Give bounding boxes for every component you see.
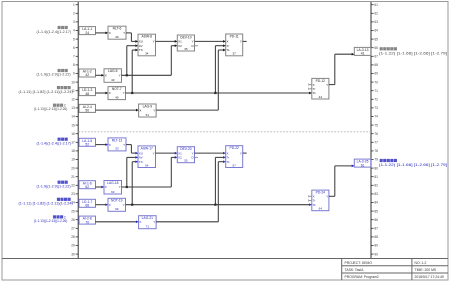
net label safety-value row 4 <box>37 26 72 34</box>
svg-text:15: 15 <box>71 123 75 127</box>
wire LAG-21.Y to PD-22.Ts <box>156 160 226 221</box>
svg-text:(1-1.22) [1-1.66] [1-2.66]: (1-1.22) [1-1.66] [1-2.66] [1-2.79] <box>379 51 447 55</box>
svg-text:Y: Y <box>153 220 155 224</box>
svg-text:X: X <box>139 220 141 224</box>
function block LA-1-1 (I/O block, value 24) <box>79 27 96 35</box>
svg-text:PD-12: PD-12 <box>316 79 326 83</box>
svg-text:DEV-20: DEV-20 <box>180 147 192 151</box>
svg-text:69: 69 <box>115 207 119 211</box>
wire ASW-17.Y to DEV-20.X1 <box>156 152 178 155</box>
svg-text:29: 29 <box>71 244 75 248</box>
svg-text:PROJECT: DEMO: PROJECT: DEMO <box>345 261 373 265</box>
wire LA-1-5 out to RLT-13.X <box>96 143 109 146</box>
pin stub PD-12.X (unconnected) <box>309 83 312 85</box>
junction on NOT-19 output at TS branch <box>131 204 133 206</box>
svg-text:Y: Y <box>123 91 125 95</box>
svg-text:8: 8 <box>73 63 75 67</box>
svg-text:26: 26 <box>115 35 119 39</box>
wire stub PD-22.Y (unconnected) <box>243 152 247 154</box>
svg-text:X: X <box>139 108 141 112</box>
svg-text:(1-1.22) [1-1.66] [1-2.66]: (1-1.22) [1-1.66] [1-2.66] [1-2.79] <box>379 163 447 167</box>
function block DEV-20 (value 55) <box>177 147 194 163</box>
svg-text:54: 54 <box>145 163 149 167</box>
svg-text:Y: Y <box>123 143 125 147</box>
svg-text:70: 70 <box>374 80 378 84</box>
function block DEV-10 (value 35) <box>177 35 194 51</box>
svg-text:25: 25 <box>71 209 75 213</box>
pin stub PD-24.Tr (unconnected) <box>309 199 312 201</box>
svg-text:76: 76 <box>374 132 378 136</box>
svg-text:61: 61 <box>374 3 378 7</box>
svg-text:37: 37 <box>233 52 237 56</box>
svg-text:NO: 1-2: NO: 1-2 <box>415 261 427 265</box>
svg-text:63: 63 <box>374 20 378 24</box>
svg-text:2: 2 <box>73 12 75 16</box>
net label safety-value row 17 <box>37 138 72 146</box>
sheet section separator (dashed) <box>78 131 371 133</box>
svg-text:(1-1.11) [1-1.82] (1-2.11)(1-2: (1-1.11) [1-1.82] (1-2.11)(1-2.24) <box>19 90 73 94</box>
svg-text:NOT-19: NOT-19 <box>111 199 123 203</box>
wire AI-1-6 out to LAG-18.X <box>96 186 105 189</box>
svg-text:82: 82 <box>374 184 378 188</box>
svg-text:Y: Y <box>153 151 155 155</box>
wire RLT-6.Y to ASW-8.XU <box>126 33 138 43</box>
wire LAG-9.Y to PD-11.Ts <box>156 49 226 110</box>
svg-text:88: 88 <box>374 235 378 239</box>
net label auto-setpoint row 66 <box>379 47 447 55</box>
svg-text:26: 26 <box>71 218 75 222</box>
title block <box>342 259 448 281</box>
svg-text:RLT-6: RLT-6 <box>113 27 122 31</box>
svg-text:77: 77 <box>374 141 378 145</box>
svg-text:Y: Y <box>326 195 328 199</box>
svg-text:4: 4 <box>73 29 75 33</box>
function block RLT-6 (value 26) <box>108 26 126 39</box>
wire stub PD-11.Y (unconnected) <box>243 40 247 42</box>
svg-text:(1-1.11) [1-1.82] (1-2.11)(1-2: (1-1.11) [1-1.82] (1-2.11)(1-2.24) <box>19 201 73 205</box>
svg-text:86: 86 <box>374 218 378 222</box>
svg-text:7: 7 <box>73 55 75 59</box>
net label feedback-value row 22 <box>37 181 71 189</box>
svg-text:55: 55 <box>184 159 188 163</box>
svg-text:X: X <box>109 143 111 147</box>
svg-text:63: 63 <box>111 190 115 194</box>
svg-text:TS: TS <box>139 160 143 164</box>
svg-text:62: 62 <box>85 185 89 189</box>
svg-text:41: 41 <box>361 52 365 56</box>
function block NOT-7 (value 49) <box>108 87 126 100</box>
svg-text:NOT-7: NOT-7 <box>112 87 122 91</box>
wire NOT-7.Y to PD-12.Ts <box>126 92 312 95</box>
wire LAG-5.Y to DEV-10.X2 <box>122 44 178 75</box>
svg-text:Y: Y <box>119 185 121 189</box>
svg-text:LAG-18: LAG-18 <box>107 181 119 185</box>
function block RLT-13 (value 53) <box>108 138 126 151</box>
svg-text:35: 35 <box>184 47 188 51</box>
svg-text:78: 78 <box>374 149 378 153</box>
function block PD-24 (value 64) <box>312 190 329 211</box>
svg-text:87: 87 <box>374 227 378 231</box>
left bus rail with row numbers 1-30 <box>71 2 78 259</box>
svg-text:57: 57 <box>233 163 237 167</box>
svg-text:ASW-8: ASW-8 <box>142 35 153 39</box>
svg-text:17: 17 <box>71 141 75 145</box>
wire DEV-20.Y to PD-22.X <box>195 152 226 155</box>
svg-text:71: 71 <box>146 225 150 229</box>
svg-text:TIME: 200 MS: TIME: 200 MS <box>415 268 437 272</box>
junction on LAG-5 output <box>126 74 128 76</box>
function block NOT-19 (value 69) <box>108 198 126 211</box>
function block PD-11 (value 37) <box>226 34 243 56</box>
svg-text:43: 43 <box>111 78 115 82</box>
svg-text:22: 22 <box>71 184 75 188</box>
svg-text:74: 74 <box>374 115 378 119</box>
svg-text:13: 13 <box>71 106 75 110</box>
svg-text:5: 5 <box>73 37 75 41</box>
svg-text:DEV-10: DEV-10 <box>180 35 192 39</box>
svg-text:ASW-17: ASW-17 <box>141 146 153 150</box>
function block LD-1-7 (I/O block, value 68) <box>79 199 96 207</box>
svg-text:72: 72 <box>374 98 378 102</box>
wire PD-24.Y to LA-3-25 in <box>329 165 354 197</box>
svg-text:(1-1.13)(1-2.13)(1-2.26): (1-1.13)(1-2.13)(1-2.26) <box>34 219 68 223</box>
function block LD-1-3 (I/O block, value 48) <box>79 88 96 96</box>
svg-text:51: 51 <box>146 113 150 117</box>
svg-text:Ts: Ts <box>313 91 317 95</box>
net label feedback-value-2 row 13 <box>34 104 68 111</box>
svg-text:90: 90 <box>374 252 378 256</box>
svg-text:2018/5/17 17:24:49: 2018/5/17 17:24:49 <box>415 275 444 279</box>
function block LAG-9 (value 51) <box>139 104 157 117</box>
svg-text:20: 20 <box>71 166 75 170</box>
svg-text:PD-24: PD-24 <box>316 191 326 195</box>
svg-text:LAG-21: LAG-21 <box>142 216 154 220</box>
function block LAG-21 (value 71) <box>139 216 157 229</box>
svg-text:53: 53 <box>115 147 119 151</box>
svg-text:Y: Y <box>326 83 328 87</box>
svg-text:49: 49 <box>115 95 119 99</box>
pin stub DEV-10.D (unconnected) <box>195 45 198 47</box>
wire DEV-10.Y to PD-11.X <box>195 40 226 43</box>
svg-text:LAG-5: LAG-5 <box>108 69 118 73</box>
svg-text:66: 66 <box>374 46 378 50</box>
wire branch to ASW-17.AV <box>127 156 138 187</box>
svg-text:(1-1.13)(1-2.13)(1-2.26): (1-1.13)(1-2.13)(1-2.26) <box>34 107 68 111</box>
svg-text:19: 19 <box>71 158 75 162</box>
function block ASW-8 (value 34) <box>138 34 156 56</box>
svg-text:71: 71 <box>374 89 378 93</box>
svg-text:(1-1.9)(1-2.9)(1-2.22): (1-1.9)(1-2.9)(1-2.22) <box>37 184 71 188</box>
net label auto-setpoint row 79 <box>379 159 447 167</box>
svg-text:70: 70 <box>85 220 89 224</box>
svg-text:62: 62 <box>374 12 378 16</box>
junction on NOT-19 output at Tr branch <box>214 204 216 206</box>
function block LAG-18 (value 63) <box>104 181 122 195</box>
svg-text:(1-1.4)(1-2.4)(1-2.17): (1-1.4)(1-2.4)(1-2.17) <box>37 141 72 145</box>
wire branch to ASW-17.TS <box>132 160 138 204</box>
svg-text:10: 10 <box>71 80 75 84</box>
svg-text:14: 14 <box>71 115 75 119</box>
svg-text:X: X <box>105 74 107 78</box>
wire LAG-18.Y to DEV-20.X2 <box>122 156 178 187</box>
wire PD-12.Y to LA-3-13 in <box>329 53 354 85</box>
svg-text:75: 75 <box>374 123 378 127</box>
net label feedback-value-2 row 26 <box>34 215 68 222</box>
svg-text:3: 3 <box>73 20 75 24</box>
svg-text:1: 1 <box>73 3 75 7</box>
svg-text:69: 69 <box>374 72 378 76</box>
svg-text:34: 34 <box>145 52 149 56</box>
svg-text:X: X <box>109 91 111 95</box>
svg-text:21: 21 <box>71 175 75 179</box>
wire AI-2-8 out to LAG-21.X <box>96 220 139 223</box>
wire AI-1-2 out to LAG-5.X <box>96 74 105 77</box>
svg-text:12: 12 <box>71 98 75 102</box>
net label auto-state row 11 <box>19 86 73 94</box>
function block LAG-5 (value 43) <box>104 69 122 83</box>
svg-text:Y: Y <box>240 40 242 44</box>
svg-text:PROGRAM: Program2: PROGRAM: Program2 <box>345 275 379 279</box>
svg-text:Ts: Ts <box>227 160 231 164</box>
svg-text:Y: Y <box>119 74 121 78</box>
svg-text:Ts: Ts <box>227 48 231 52</box>
function block AI-1-2 (I/O block, value 42) <box>79 69 96 77</box>
svg-text:6: 6 <box>73 46 75 50</box>
svg-text:85: 85 <box>374 209 378 213</box>
svg-text:83: 83 <box>374 192 378 196</box>
svg-text:89: 89 <box>374 244 378 248</box>
drawing frame bottom line <box>2 258 448 260</box>
function block PD-12 (value 44) <box>312 78 329 99</box>
svg-text:64: 64 <box>374 29 378 33</box>
svg-text:X: X <box>109 31 111 35</box>
svg-text:TS: TS <box>139 48 143 52</box>
svg-text:64: 64 <box>319 207 323 211</box>
right bus rail with row numbers 61-90 <box>371 2 378 259</box>
net label feedback-value row 9 <box>37 69 71 77</box>
pin stub PD-24.X (unconnected) <box>309 195 312 197</box>
svg-text:18: 18 <box>71 149 75 153</box>
function block LA-3-13 (I/O block, value 41) <box>354 47 371 55</box>
svg-text:TASK: Task1: TASK: Task1 <box>345 268 364 272</box>
wire AI-2-4 out to LAG-9.X <box>96 109 139 112</box>
svg-text:RLT-13: RLT-13 <box>112 138 123 142</box>
wire RLT-13.Y to ASW-17.XU <box>126 145 138 155</box>
svg-text:16: 16 <box>71 132 75 136</box>
svg-text:23: 23 <box>71 192 75 196</box>
junction on NOT-7 output at TS branch <box>131 92 133 94</box>
wire LD-1-7 out to NOT-19.X <box>96 203 109 206</box>
net label auto-state row 24 <box>19 198 73 206</box>
junction on NOT-7 output at Tr branch <box>214 92 216 94</box>
function block LA-3-25 (I/O block, value 61) <box>354 159 371 167</box>
wire NOT-19.Y to PD-24.Ts <box>126 203 312 206</box>
svg-text:Y: Y <box>240 151 242 155</box>
svg-text:61: 61 <box>361 163 365 167</box>
wire ASW-8.Y to DEV-10.X1 <box>156 40 178 43</box>
function block AI-2-8 (I/O block, value 70) <box>79 216 96 224</box>
svg-text:50: 50 <box>85 109 89 113</box>
svg-text:X2: X2 <box>178 44 182 48</box>
svg-text:X2: X2 <box>178 156 182 160</box>
wire branch to ASW-8.AV <box>127 44 138 75</box>
function block LA-1-5 (I/O block, value 52) <box>79 138 96 146</box>
wire branch to PD-11.Tr <box>215 44 225 93</box>
svg-text:30: 30 <box>71 252 75 256</box>
wire branch to ASW-8.TS <box>132 49 138 93</box>
wire branch to PD-22.Tr <box>215 156 225 205</box>
svg-text:81: 81 <box>374 175 378 179</box>
svg-text:48: 48 <box>85 92 89 96</box>
svg-text:68: 68 <box>374 63 378 67</box>
svg-text:84: 84 <box>374 201 378 205</box>
svg-text:73: 73 <box>374 106 378 110</box>
svg-text:Y: Y <box>123 31 125 35</box>
function block PD-22 (value 57) <box>226 146 243 168</box>
svg-text:52: 52 <box>85 143 89 147</box>
function block AI-1-6 (I/O block, value 62) <box>79 181 96 189</box>
svg-text:LAG-9: LAG-9 <box>143 104 153 108</box>
svg-text:Ts: Ts <box>313 203 317 207</box>
svg-text:79: 79 <box>374 158 378 162</box>
svg-text:PD-11: PD-11 <box>230 34 239 38</box>
svg-text:Y: Y <box>153 108 155 112</box>
svg-text:27: 27 <box>71 227 75 231</box>
svg-text:9: 9 <box>73 72 75 76</box>
pin stub DEV-20.D (unconnected) <box>195 156 198 158</box>
wire LA-1-1 out to RLT-6.X <box>96 32 109 35</box>
svg-text:44: 44 <box>319 95 323 99</box>
svg-text:(1-1.9)(1-2.9)(1-2.22): (1-1.9)(1-2.9)(1-2.22) <box>37 73 71 77</box>
svg-text:(1-1.4)(1-2.4)(1-2.17): (1-1.4)(1-2.4)(1-2.17) <box>37 30 72 34</box>
svg-text:68: 68 <box>85 204 89 208</box>
svg-text:67: 67 <box>374 55 378 59</box>
svg-text:65: 65 <box>374 37 378 41</box>
function block ASW-17 (value 54) <box>138 146 156 168</box>
svg-text:Y: Y <box>123 203 125 207</box>
function block AI-2-4 (I/O block, value 50) <box>79 104 96 112</box>
svg-text:Y: Y <box>153 40 155 44</box>
junction on LAG-18 output <box>126 186 128 188</box>
svg-text:42: 42 <box>85 73 89 77</box>
svg-text:X: X <box>105 185 107 189</box>
svg-text:80: 80 <box>374 166 378 170</box>
pin stub PD-12.Tr (unconnected) <box>309 88 312 90</box>
wire LD-1-3 out to NOT-7.X <box>96 92 109 95</box>
svg-text:24: 24 <box>85 31 89 35</box>
svg-text:PD-22: PD-22 <box>230 146 240 150</box>
svg-text:X: X <box>109 203 111 207</box>
svg-text:28: 28 <box>71 235 75 239</box>
